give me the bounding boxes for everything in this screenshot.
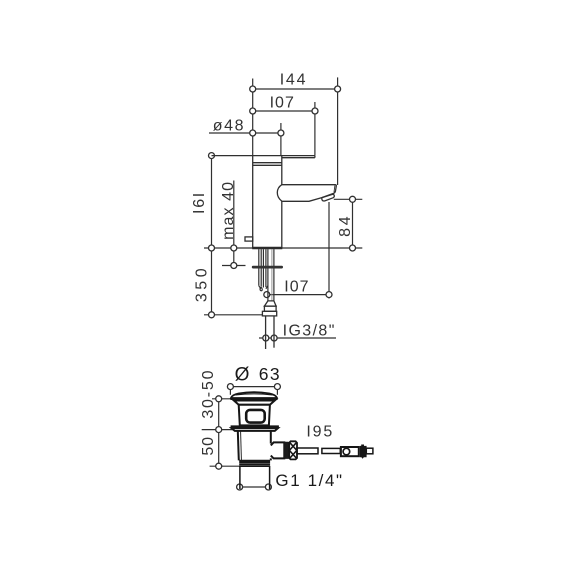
dimension 144 (253, 88, 338, 90)
dimension ø48 (209, 132, 281, 134)
hose nut block B (262, 311, 276, 316)
rod connector block (341, 447, 359, 456)
pop-up rod (297, 447, 373, 456)
extension line aerator-down (328, 202, 330, 299)
dimension 161 (211, 156, 213, 248)
svg-text:I07: I07 (270, 95, 295, 112)
rod dark joint (360, 446, 367, 459)
aerator lip (322, 194, 335, 201)
svg-text:84: 84 (337, 213, 354, 236)
rod segment 2 (322, 448, 340, 453)
svg-text:350: 350 (194, 265, 211, 302)
extension line body-right-top (280, 123, 282, 155)
hose tube lower (265, 316, 267, 349)
extension 50 bottom (210, 465, 240, 467)
svg-text:I6I: I6I (191, 191, 208, 214)
extension line lever-tip (314, 102, 316, 155)
dimension max40 (233, 181, 235, 266)
body right edge lower (281, 201, 283, 248)
lever bottom line (282, 157, 315, 159)
cap inner arc (236, 394, 273, 395)
knurled nut (289, 441, 297, 459)
cap base band (230, 398, 277, 401)
body bottom thick line (252, 247, 282, 250)
svg-text:IG3/8": IG3/8" (283, 322, 336, 339)
svg-text:Ø: Ø (235, 364, 250, 385)
mounting surface line (204, 247, 362, 249)
flange bar (231, 425, 279, 428)
leader G3/8 (259, 337, 336, 339)
svg-text:I44: I44 (280, 72, 308, 89)
lower body right edge (270, 431, 272, 444)
extension line 350 bottom (204, 314, 262, 316)
body right edge upper (281, 156, 283, 185)
svg-text:50: 50 (200, 436, 217, 455)
svg-text:I07: I07 (284, 278, 309, 295)
leader G1 1/4 (240, 486, 272, 488)
dimension 30-50 and 50 (218, 399, 220, 466)
dimension end circles (209, 86, 356, 490)
spout outline (277, 185, 336, 202)
fixing tab (245, 237, 253, 241)
collar line 1 (253, 162, 282, 164)
extension line 84 top (334, 198, 363, 200)
overflow window (246, 410, 265, 423)
flange washer dark (252, 266, 283, 269)
svg-text:I95: I95 (306, 424, 334, 441)
faucet top / lever top line (212, 155, 315, 157)
extension line max40 bottom (222, 265, 246, 267)
extension line spout-tip (337, 77, 339, 185)
cap skirt (234, 401, 275, 405)
side outlet (271, 442, 285, 458)
extension line body-left (252, 79, 254, 156)
connector hole (343, 448, 350, 455)
svg-text:ø48: ø48 (213, 118, 245, 135)
hose wall lines (271, 249, 273, 301)
hose nut transition (264, 301, 276, 306)
dimension 107 top (253, 110, 315, 112)
svg-text:63: 63 (259, 364, 281, 384)
rod segment 1 (297, 448, 318, 454)
rod end cap (366, 448, 373, 454)
dimension 84 (352, 199, 354, 248)
spout tip inner line (333, 185, 336, 192)
drip (260, 287, 262, 290)
outlet-body bottom joint (270, 458, 272, 460)
tailpipe walls (239, 466, 241, 489)
dimension 107 bottom (267, 294, 329, 296)
flange skirt (232, 428, 279, 431)
drain cap dome (231, 392, 277, 398)
shank chamfer (259, 286, 261, 289)
tailpiece threads (239, 461, 270, 489)
body left edge (252, 156, 254, 248)
shank verticals (258, 249, 260, 286)
lower body left edge (238, 431, 239, 461)
hose nut block A (264, 306, 276, 311)
dimension 350 (211, 248, 213, 315)
outlet washer dark (284, 442, 289, 459)
extension Ø63 left (229, 387, 231, 395)
extension 50 mid (202, 429, 235, 431)
collar line 2 (253, 164, 282, 166)
upper body (239, 405, 270, 426)
extension Ø63 right (276, 387, 278, 395)
svg-text:max 40: max 40 (220, 181, 237, 240)
lower body inner shading line (240, 431, 243, 460)
svg-text:30-50: 30-50 (200, 369, 217, 419)
svg-text:G1 1/4": G1 1/4" (275, 471, 343, 490)
dimension Ø63 (230, 386, 277, 388)
lever tip (314, 156, 316, 158)
extension 30-50 top (212, 398, 231, 400)
